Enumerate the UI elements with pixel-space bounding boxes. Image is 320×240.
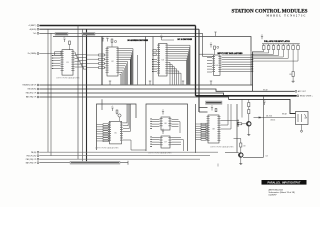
svg-text:+5: +5 (160, 35, 162, 37)
wire +5 rail (262, 43, 300, 45)
ground under R5 (292, 80, 295, 83)
wire vertical from pull-ups (252, 52, 254, 92)
power +5V above U5 (111, 108, 113, 111)
svg-text:INPUT PORT DATA LATCHES: INPUT PORT DATA LATCHES (218, 52, 244, 55)
wire U6 U7 input wires (152, 119, 184, 151)
svg-text:PA2 (RX) OP: PA2 (RX) OP (26, 92, 37, 95)
svg-text:PB4 (PLUS): PB4 (PLUS) (26, 155, 36, 157)
power +5V above U6 (162, 112, 164, 115)
wire U3 left pin wires (154, 59, 158, 71)
svg-text:U1: U1 (66, 62, 68, 64)
connector PB2 (37, 158, 39, 160)
svg-text:A (BUS): A (BUS) (30, 28, 37, 31)
svg-text:RELAY DRIVE +: RELAY DRIVE + (300, 95, 313, 98)
node tick x218 (217, 164, 219, 167)
wire Q2 collector elbow (234, 139, 241, 144)
diode D1 (259, 117, 261, 119)
wire Q1 collector chain (248, 99, 250, 121)
module box top row (53, 37, 251, 86)
ground Q2 emitter (239, 162, 242, 165)
wire U1 left pin wires (53, 55, 60, 68)
wire vertical V7 (241, 99, 243, 117)
svg-text:PB (B): PB (B) (31, 152, 37, 154)
label box bottom bus (70, 161, 120, 164)
wire U2 module vertical (137, 55, 139, 85)
connector RELAY DRIVE + (297, 95, 299, 97)
wire Q1 emitter (248, 126, 250, 133)
transistor Q2 (239, 153, 243, 157)
svg-text:U5: U5 (114, 132, 116, 134)
resistor network RN4 (196, 123, 209, 140)
resistor R4 (214, 46, 216, 49)
power +5V above U3 (160, 37, 162, 40)
svg-text:+5: +5 (210, 43, 212, 45)
resistor network RN1 (87, 54, 106, 69)
svg-text:U8: U8 (212, 129, 214, 131)
wire R11 to Q2 (240, 147, 242, 153)
resistor R5 15K with ground (292, 50, 294, 72)
wire bus C horizontal (40, 32, 203, 34)
wire Q1 base (242, 123, 247, 125)
power +5V above U4 (210, 45, 212, 48)
wire U8 outputs (221, 104, 238, 129)
resistor R9 (248, 110, 250, 114)
transistor Q3 small (118, 114, 121, 117)
wire R2 to U2 (111, 42, 113, 47)
wire mid bus M1 (40, 84, 253, 86)
power tap near bus corner (214, 32, 216, 36)
svg-text:U4: U4 (216, 65, 218, 67)
module box bottom row (97, 104, 238, 153)
svg-text:+5: +5 (106, 37, 108, 39)
wire bus elbow to U4 b (203, 55, 214, 57)
svg-text:BC 16 DECODER: BC 16 DECODER (178, 39, 193, 41)
resistor R3b (153, 53, 156, 55)
capacitor C1 (114, 40, 116, 42)
wire relay to ground (301, 125, 303, 131)
svg-text:U6: U6 (164, 123, 166, 125)
svg-text:+5: +5 (211, 106, 213, 108)
power +5V near relay (263, 102, 265, 105)
wire Q2 emitter (240, 157, 242, 162)
latch U8 parallel out (207, 115, 221, 143)
resistor R8 (248, 103, 250, 107)
latch U4 input port (212, 55, 222, 75)
wire vertical V6 lower (101, 99, 103, 110)
svg-text:01/28/97: 01/28/97 (269, 194, 278, 196)
connector APC OUT (295, 90, 297, 92)
wire bottom bus B4 (40, 162, 129, 164)
wire E2 relay feed (229, 99, 296, 113)
node pads left of U6/U7 (150, 119, 152, 148)
connector PA0 (37, 84, 39, 86)
connector relay common (301, 130, 303, 132)
resistor R11 (240, 143, 242, 147)
connector PA2 (37, 92, 39, 94)
node end tick B4 (127, 161, 129, 165)
resistor network RN3 (97, 124, 110, 142)
wire +5 feed U3 (162, 39, 175, 41)
wire module box right edge upper (250, 37, 252, 52)
power +5V pull-up rail (261, 36, 263, 39)
power +5V arrow U2 (106, 39, 108, 42)
power +5V above U2 (102, 39, 104, 42)
svg-text:PB5 (PB) OP: PB5 (PB) OP (26, 159, 37, 161)
resistor R2 (111, 39, 113, 42)
connector Rx DATA (37, 53, 39, 55)
connector PB0 (37, 151, 39, 153)
wire Q2 base (225, 152, 239, 154)
wire mid bus M4 step (40, 97, 229, 99)
power +5V above U7 (162, 131, 164, 134)
wire bus B elbow into module3 (199, 107, 208, 109)
svg-text:10K: 10K (243, 146, 246, 148)
wire bus B vertical drop (198, 29, 200, 112)
wire bus C vertical drop (202, 33, 204, 56)
resistor R7 (215, 109, 217, 112)
wire bus B horizontal (40, 28, 200, 30)
wire vertical V5 thick (86, 29, 88, 163)
svg-text:U2: U2 (111, 61, 113, 63)
svg-text:I/O ADDRESS DECODER: I/O ADDRESS DECODER (128, 39, 149, 42)
wire mid bus M2 to APC OUT (40, 89, 295, 91)
resistor R6 (116, 110, 118, 113)
wire to relay coil (254, 117, 296, 119)
svg-text:+5: +5 (261, 34, 263, 36)
wire vertical V4 (82, 29, 84, 163)
wire bus elbow to U4 a (199, 53, 214, 55)
wire vertical V2 (50, 33, 52, 155)
capacitor C2 (217, 46, 219, 48)
relay K1 contacts (298, 114, 307, 122)
wire Q2 collector to vertical (243, 156, 264, 158)
svg-text:+5 (BATT): +5 (BATT) (28, 24, 36, 27)
wire staircase U1 outputs (75, 53, 87, 70)
connector PA1 (37, 88, 39, 90)
wire RxD line (40, 53, 61, 55)
svg-text:PA (BUS) LATCH: PA (BUS) LATCH (23, 84, 37, 87)
wire vertical to Q2 collector (263, 96, 265, 158)
power +5V above U8 (211, 108, 213, 111)
wire Q3 leads (117, 113, 120, 121)
svg-text:BAT (PA) OP: BAT (PA) OP (26, 96, 37, 99)
connector +5 BATT (37, 25, 39, 27)
svg-text:Rx (DATA): Rx (DATA) (28, 52, 37, 55)
wire vertical V3 (77, 26, 79, 160)
wire bus A vertical drop (195, 26, 197, 96)
svg-text:+5: +5 (111, 106, 113, 108)
wire U4 left pin wires (207, 58, 212, 73)
power +5V above U1 (63, 39, 65, 42)
svg-text:APC OUT: APC OUT (298, 90, 307, 93)
wire bottom bus B2 (40, 155, 211, 157)
wire U4 to pads (222, 55, 252, 71)
gate U6 (160, 117, 172, 130)
gate U7 (160, 136, 172, 148)
filter FL1 inline (55, 52, 62, 55)
wire R4 to U4 (214, 49, 216, 55)
label box PARALLEL OUT (206, 101, 223, 104)
wire bottom bus B1 (40, 151, 219, 153)
node pads right of U8 (237, 120, 239, 127)
connector PA3 (37, 96, 39, 98)
wire ladder U3 outputs (169, 45, 191, 84)
wire bus B elbow 2 into module3 (199, 111, 208, 113)
node pads left of U1 (52, 55, 54, 69)
wire U5 outputs (123, 104, 146, 150)
connector TxD (37, 32, 39, 34)
ground stubs on M1 (109, 81, 212, 85)
wire vertical V6 (101, 37, 103, 86)
svg-text:MODEL TCN6273C: MODEL TCN6273C (266, 14, 306, 17)
connector PB3 (37, 162, 39, 164)
svg-text:PA1 (BUS): PA1 (BUS) (28, 88, 37, 91)
svg-text:U3: U3 (162, 59, 164, 61)
resistor R10 Q1 base (238, 123, 242, 125)
decoder U3 (157, 44, 169, 77)
wire relay drive thick E1 (196, 95, 297, 97)
svg-text:+5: +5 (63, 37, 65, 39)
op-amp U1 serial interface IC (61, 50, 75, 75)
ground Q1 emitter (247, 133, 250, 136)
label box DMA 5 (82, 33, 95, 36)
title block PARALLEL INPUT/OUTPUT (262, 180, 307, 185)
svg-text:1N4004: 1N4004 (270, 120, 275, 122)
wire R1 to U1 (69, 45, 71, 50)
latch U5 output port (108, 121, 123, 144)
svg-text:PARALLEL INPUT/OUTPUT: PARALLEL INPUT/OUTPUT (267, 181, 300, 184)
svg-text:+5: +5 (162, 110, 164, 112)
svg-text:U7: U7 (164, 142, 166, 144)
node pads right of U4 (252, 54, 254, 71)
label box SM BUS (55, 33, 68, 36)
resistor R3a (153, 50, 156, 52)
connector A BUS (37, 28, 39, 30)
svg-text:BAT (PB) OP: BAT (PB) OP (26, 161, 37, 164)
connector PB1 (37, 155, 39, 157)
svg-text:+5: +5 (162, 129, 164, 131)
resistor R1 (69, 41, 71, 45)
wire bus A horizontal (40, 25, 196, 27)
transistor Q1 (247, 122, 251, 126)
node pads left of U3 (152, 59, 154, 72)
wire ladder U2 outputs (120, 49, 134, 85)
relay K1 (296, 112, 309, 125)
svg-text:PULL-UPS FOR INPUT LATCH: PULL-UPS FOR INPUT LATCH (264, 40, 290, 43)
wire mid bus M3 step (40, 93, 224, 96)
latch U2 (106, 47, 120, 76)
wire vertical V1 (47, 29, 49, 152)
resistor network RN2 pull-ups (253, 44, 300, 61)
wire bottom bus B3 (40, 158, 201, 160)
